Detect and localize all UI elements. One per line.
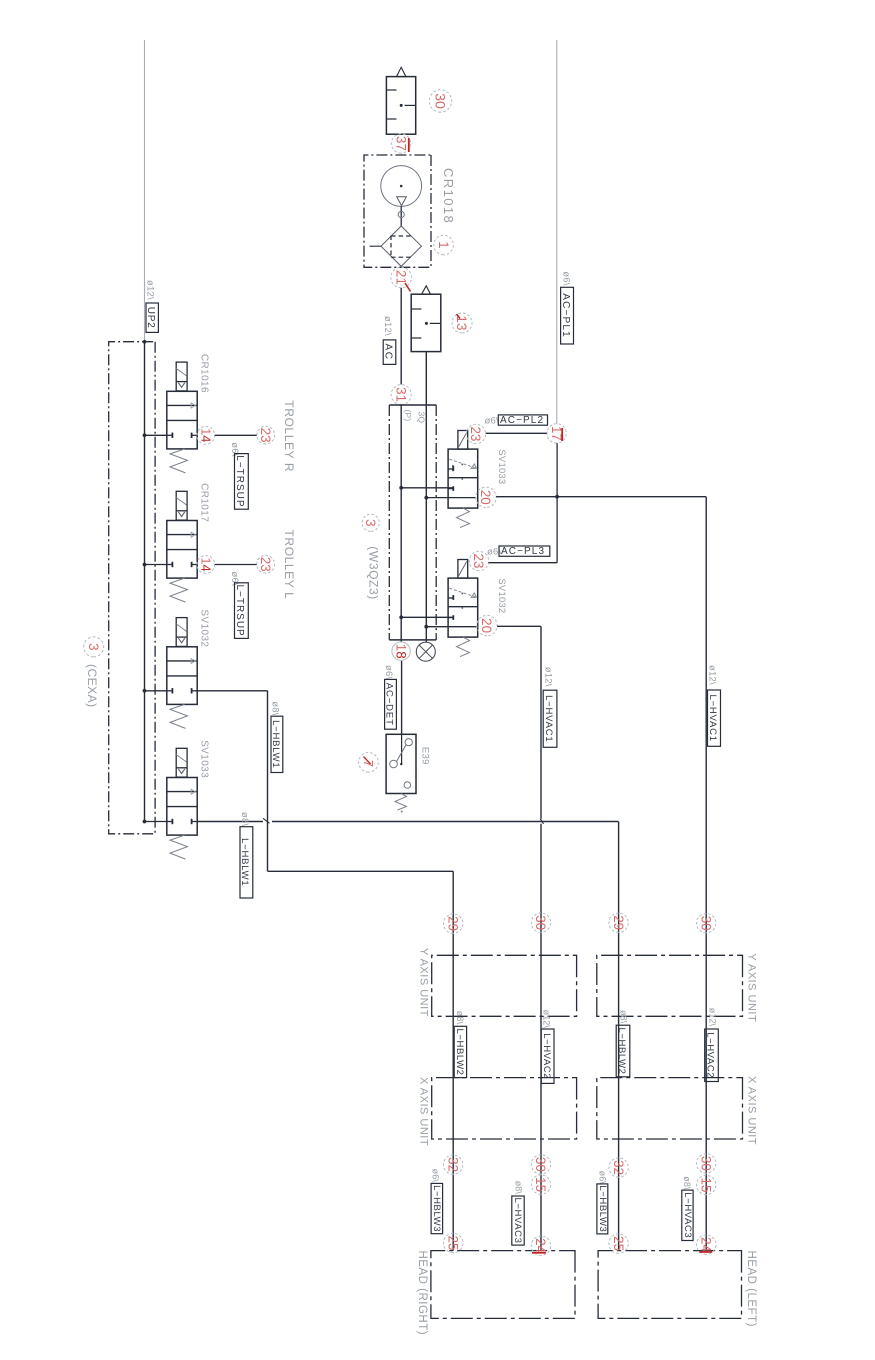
svg-text:ø8\: ø8\ [619, 1010, 629, 1024]
svg-text:ø6\: ø6\ [383, 665, 394, 679]
svg-text:CR1016: CR1016 [199, 354, 210, 393]
svg-text:UP2: UP2 [145, 307, 156, 329]
svg-text:24: 24 [533, 1238, 548, 1253]
svg-text:Y AXIS UNIT: Y AXIS UNIT [418, 948, 430, 1017]
svg-text:L−HBLW3: L−HBLW3 [597, 1185, 608, 1232]
svg-text:25: 25 [445, 1236, 460, 1251]
svg-text:SV1033: SV1033 [496, 449, 507, 484]
svg-text:L−TRSUP: L−TRSUP [234, 584, 245, 636]
svg-text:ø6\: ø6\ [485, 416, 499, 427]
svg-text:20: 20 [478, 490, 493, 505]
svg-text:L−HVAC2: L−HVAC2 [705, 1032, 716, 1078]
svg-text:29: 29 [611, 915, 626, 930]
svg-text:SV1032: SV1032 [496, 578, 507, 613]
svg-text:CR1017: CR1017 [199, 483, 210, 522]
svg-text:TROLLEY R: TROLLEY R [282, 400, 296, 472]
svg-text:ø12\: ø12\ [145, 280, 156, 300]
svg-text:(W3QZ3): (W3QZ3) [367, 546, 381, 600]
svg-text:L−HVAC2: L−HVAC2 [541, 1033, 552, 1079]
svg-text:14: 14 [199, 428, 214, 442]
svg-text:SV1033: SV1033 [199, 740, 210, 778]
svg-text:(P): (P) [403, 410, 413, 422]
svg-text:32: 32 [445, 1157, 460, 1172]
svg-text:AC−PL3: AC−PL3 [501, 546, 545, 557]
svg-text:14: 14 [199, 557, 214, 571]
svg-text:15: 15 [698, 1178, 713, 1193]
svg-text:1: 1 [436, 241, 451, 248]
svg-text:L−HVAC1: L−HVAC1 [543, 695, 554, 742]
svg-text:L−HBLW2: L−HBLW2 [616, 1027, 627, 1074]
svg-text:23: 23 [258, 428, 273, 443]
svg-text:20: 20 [479, 618, 494, 633]
svg-text:3Q: 3Q [417, 412, 427, 424]
svg-text:13: 13 [454, 316, 469, 331]
svg-text:AC−PL1: AC−PL1 [560, 293, 571, 338]
svg-text:ø12\: ø12\ [707, 1008, 717, 1027]
svg-text:ø12\: ø12\ [382, 316, 393, 336]
svg-text:30: 30 [431, 93, 447, 109]
svg-text:ø6\: ø6\ [598, 1171, 608, 1185]
svg-text:HEAD (LEFT): HEAD (LEFT) [745, 1251, 757, 1327]
svg-text:E39: E39 [420, 747, 431, 765]
svg-text:3: 3 [86, 643, 101, 650]
svg-text:L−TRSUP: L−TRSUP [234, 455, 245, 507]
svg-text:X AXIS UNIT: X AXIS UNIT [418, 1077, 430, 1146]
svg-text:HEAD (RIGHT): HEAD (RIGHT) [416, 1251, 428, 1336]
svg-text:30: 30 [698, 1156, 713, 1171]
svg-text:29: 29 [445, 916, 460, 931]
svg-text:3: 3 [363, 519, 378, 526]
svg-text:31: 31 [393, 387, 408, 402]
svg-text:CR1018: CR1018 [441, 168, 456, 224]
svg-text:AC: AC [382, 344, 393, 361]
svg-text:L−HVAC3: L−HVAC3 [682, 1192, 693, 1238]
svg-text:Y AXIS UNIT: Y AXIS UNIT [746, 953, 758, 1022]
svg-text:L−HVAC3: L−HVAC3 [512, 1197, 523, 1243]
svg-text:23: 23 [258, 557, 273, 572]
svg-text:L−HBLW1: L−HBLW1 [239, 838, 250, 886]
svg-text:AC−PL2: AC−PL2 [500, 415, 544, 426]
svg-text:ø8\: ø8\ [270, 701, 281, 715]
svg-text:30: 30 [533, 1157, 548, 1172]
svg-text:24: 24 [698, 1237, 713, 1252]
svg-text:25: 25 [611, 1236, 626, 1251]
svg-text:23: 23 [468, 427, 483, 442]
svg-text:ø12\: ø12\ [707, 665, 718, 685]
svg-text:ø8\: ø8\ [455, 1011, 465, 1025]
svg-text:18: 18 [394, 644, 409, 659]
svg-text:15: 15 [533, 1177, 548, 1192]
svg-text:ø6\: ø6\ [561, 271, 572, 285]
svg-text:ø12\: ø12\ [543, 667, 554, 687]
svg-text:L−HBLW2: L−HBLW2 [454, 1028, 465, 1075]
svg-text:ø8\: ø8\ [239, 812, 250, 826]
svg-text:TROLLEY L: TROLLEY L [282, 530, 296, 600]
svg-text:32: 32 [611, 1160, 626, 1175]
svg-text:21: 21 [393, 270, 408, 285]
svg-text:L−HVAC1: L−HVAC1 [707, 694, 718, 741]
svg-text:SV1032: SV1032 [199, 609, 210, 647]
svg-text:L−HBLW1: L−HBLW1 [270, 720, 281, 768]
svg-text:L−HBLW3: L−HBLW3 [431, 1185, 442, 1232]
svg-text:30: 30 [533, 915, 548, 930]
svg-text:(CEXA): (CEXA) [85, 664, 99, 708]
svg-text:ø8\: ø8\ [682, 1176, 692, 1190]
svg-text:37: 37 [393, 136, 408, 151]
svg-text:23: 23 [471, 554, 486, 569]
svg-text:AC−DET: AC−DET [384, 683, 395, 726]
svg-text:ø6\: ø6\ [431, 1169, 441, 1183]
svg-text:ø8\: ø8\ [514, 1181, 524, 1195]
svg-text:X AXIS UNIT: X AXIS UNIT [746, 1076, 758, 1145]
svg-text:ø12\: ø12\ [542, 1010, 552, 1029]
svg-text:30: 30 [698, 916, 713, 931]
